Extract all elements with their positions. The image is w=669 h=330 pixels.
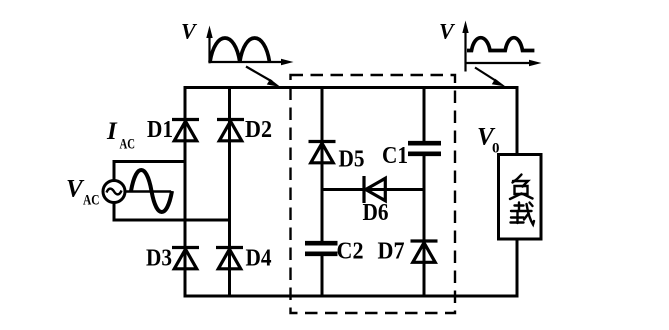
right waveform horizontal axis [466, 62, 531, 64]
wire valley-fill left branch [321, 86, 324, 298]
load box [499, 155, 542, 240]
svg-text:AC: AC [120, 137, 136, 153]
wire top bus [185, 86, 517, 89]
diode D3 [172, 248, 199, 269]
annotation arrow right [475, 68, 497, 82]
diode D5 [309, 142, 336, 163]
wire D6 horizontal [322, 188, 424, 191]
wire source top [114, 162, 185, 181]
svg-text:D6: D6 [363, 200, 389, 226]
svg-text:C2: C2 [337, 239, 364, 265]
dashed box valley-fill section [291, 75, 456, 313]
diode D1 [172, 120, 199, 141]
wire bridge left vertical [184, 86, 187, 298]
AC source tilde [107, 189, 122, 195]
svg-text:D2: D2 [245, 117, 272, 143]
svg-text:D5: D5 [339, 147, 365, 173]
capacitor C2 [305, 243, 338, 254]
svg-text:D3: D3 [146, 246, 172, 272]
load text 负 [510, 175, 533, 200]
wire bottom bus [185, 295, 517, 298]
diode D6 [364, 176, 385, 203]
svg-text:D7: D7 [378, 239, 405, 265]
svg-text:D4: D4 [246, 246, 272, 272]
svg-text:D1: D1 [147, 117, 173, 143]
left waveform rectified sine [210, 38, 270, 62]
diode D7 [411, 241, 438, 262]
svg-text:V: V [181, 19, 198, 44]
diode D2 [217, 120, 244, 141]
wire bridge right vertical [228, 86, 231, 298]
wire load branch [516, 86, 519, 298]
capacitor C1 [408, 143, 441, 154]
sine waveform symbol at source [126, 190, 172, 193]
right waveform vertical axis [464, 31, 466, 72]
right waveform valley-fill output [467, 38, 534, 51]
load text 载 [511, 203, 535, 225]
svg-text:AC: AC [83, 193, 100, 209]
left waveform vertical axis [208, 36, 210, 63]
diode D4 [216, 248, 243, 269]
svg-text:I: I [106, 118, 118, 145]
annotation arrow left [246, 67, 272, 82]
svg-text:V: V [439, 19, 456, 44]
svg-text:0: 0 [492, 141, 500, 157]
left waveform horizontal axis [210, 61, 283, 63]
AC source VAC circle [103, 181, 125, 203]
wire source bottom [114, 203, 230, 221]
svg-text:C1: C1 [382, 143, 408, 169]
wire valley-fill right branch [423, 86, 426, 298]
